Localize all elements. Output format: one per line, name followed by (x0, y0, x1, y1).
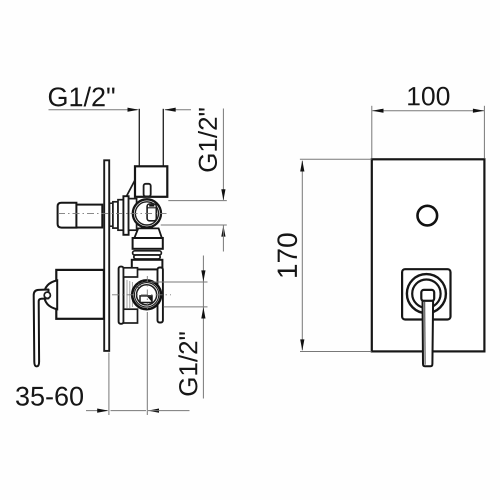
wall plate (side view) (104, 160, 109, 351)
left flange ring 3 (118, 200, 123, 231)
dimension: lower-right G1/2 label (rotated) (178, 332, 197, 395)
extension line valve center (146, 312, 148, 415)
upper valve centerline horizontal (dashed) (58, 213, 169, 215)
upper valve centerline vertical (dashed) (146, 184, 148, 234)
front view plate (372, 159, 485, 351)
cartridge dome cap (44, 280, 57, 309)
dimension: right G1/2 label (rotated) (198, 108, 217, 171)
cartridge texture (127, 280, 132, 308)
dimension: 100 label (408, 87, 449, 106)
nut ring 1 (133, 251, 162, 255)
dimension: 35-60 label (16, 387, 83, 406)
lower valve centerline horizontal (dashed) (112, 294, 171, 296)
escutcheon outer circle (407, 274, 446, 313)
diverter piston (147, 204, 156, 221)
extension line plate (108, 353, 110, 416)
extension line plate top-left (300, 158, 372, 160)
button (418, 206, 438, 226)
cartridge housing (left of plate) (56, 270, 104, 319)
top connection block (135, 166, 167, 197)
valve hub (129, 199, 137, 231)
left flange ring 2 (113, 202, 118, 228)
left flange plate (123, 196, 128, 235)
extension line plate right top (483, 106, 485, 159)
diverter pin (144, 184, 151, 197)
mounting bracket left bar (119, 267, 124, 324)
right vertical dimension line (222, 109, 224, 200)
dimension line top (49, 109, 138, 111)
left pipe stub cap (58, 203, 77, 228)
neck below upper valve (134, 228, 161, 238)
170 dimension line (301, 161, 303, 350)
left pipe stub body (76, 205, 102, 228)
handle base (front) (421, 290, 434, 301)
35-60 dimension line (86, 410, 108, 412)
stem wedge (147, 297, 152, 303)
bracket bottom tab (124, 309, 138, 323)
lower valve outer circle (132, 280, 161, 309)
dimension: top G1/2 label (49, 87, 115, 107)
lower-right vertical dimension line (202, 256, 204, 399)
dimension: 170 label (rotated) (277, 233, 297, 276)
top inlet pipe (138, 109, 140, 166)
extension line plate bottom-left (300, 351, 372, 353)
bracket right bar (158, 268, 163, 323)
lower valve middle circle (134, 283, 158, 307)
left flange ring 1 (110, 203, 113, 226)
upper valve outer circle (133, 199, 161, 227)
knurl ticks (136, 281, 144, 288)
block chamfer (127, 180, 136, 196)
connector block (133, 238, 163, 249)
nut ring 2 (134, 255, 160, 259)
extension line plate left top (371, 106, 373, 159)
handle shaft (front) (423, 301, 434, 366)
lower valve body block (132, 260, 163, 270)
lower valve inner circle (137, 285, 157, 305)
lever pivot screw (44, 292, 50, 298)
valve stem tab (140, 296, 152, 303)
100 dimension line (372, 110, 484, 112)
bracket top tab (124, 268, 138, 277)
lever handle (side view) (34, 290, 49, 367)
escutcheon inner circle (412, 280, 440, 308)
escutcheon square (402, 269, 450, 319)
upper valve inner circle (135, 202, 158, 225)
lower valve centerline vertical (dashed) (146, 276, 148, 311)
